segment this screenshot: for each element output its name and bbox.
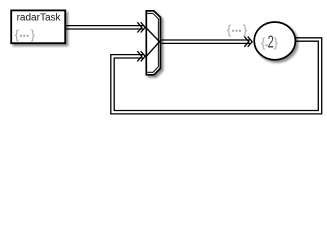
feedback wire (inner line) <box>114 41 318 110</box>
wire bus Mux to circle <box>160 40 250 43</box>
circle label {.2} <box>261 32 279 52</box>
wire bus radarTask to Mux upper input <box>66 26 144 29</box>
subsystem block radarTask <box>11 10 65 43</box>
arrowhead into circle <box>244 37 252 47</box>
svg-text:{: { <box>261 35 266 50</box>
bus badge {...} on wire <box>227 22 248 37</box>
Mux signal line input1 <box>146 28 159 42</box>
svg-text:}: } <box>274 35 279 50</box>
Mux signal line input2 <box>146 42 159 57</box>
arrowhead into Mux upper input <box>137 22 145 32</box>
Mux inner outline <box>147 13 159 72</box>
label radarTask <box>17 13 62 24</box>
arrowhead into Mux lower input <box>137 51 145 61</box>
svg-text:radarTask: radarTask <box>17 13 62 24</box>
bus badge {...} inside block <box>15 27 36 42</box>
feedback wire circle to Mux lower input (outer line) <box>111 38 322 114</box>
circle block <box>254 22 295 60</box>
Mux block <box>146 11 160 75</box>
